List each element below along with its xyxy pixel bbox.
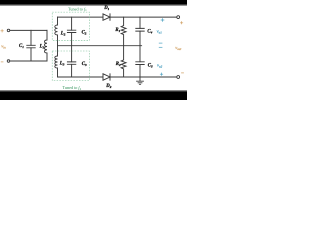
capacitor C4 branch wire <box>139 17 141 46</box>
capacitor C2 plates <box>67 30 75 32</box>
bottom letterbox bar <box>0 91 187 100</box>
svg-text:C4: C4 <box>147 30 152 35</box>
output terminal top <box>177 16 180 19</box>
svg-text:C1: C1 <box>19 44 24 49</box>
capacitor C2 branch wire <box>71 17 73 46</box>
wire top rail left <box>58 16 103 18</box>
polarity minus vout <box>181 72 184 74</box>
tuned box 1 <box>52 12 89 40</box>
polarity plus vo1 <box>161 18 165 22</box>
inductor L2 <box>55 17 58 35</box>
capacitor C5 branch wire <box>139 46 141 77</box>
inductor L1 <box>45 30 47 61</box>
wire center rail <box>58 45 142 47</box>
input terminal top <box>7 29 10 32</box>
polarity plus vin <box>1 29 4 32</box>
wire bottom rail left <box>58 76 103 78</box>
ground <box>137 77 144 84</box>
svg-text:C5: C5 <box>148 63 153 68</box>
svg-text:D2: D2 <box>105 84 111 89</box>
resistor R2 <box>121 46 126 77</box>
wire bottom rail right <box>110 76 177 78</box>
input terminal bottom <box>7 60 10 63</box>
polarity minus vo2 <box>159 46 163 48</box>
svg-text:L2: L2 <box>60 32 66 37</box>
wire center tap vertical <box>57 35 59 56</box>
resistor R1 <box>121 17 126 46</box>
svg-text:C2: C2 <box>82 31 87 36</box>
polarity minus vin <box>1 61 4 63</box>
svg-text:R2: R2 <box>116 62 121 67</box>
inductor L3 <box>55 56 58 77</box>
polarity plus vo2 <box>160 73 163 76</box>
polarity minus vo1 <box>159 42 163 44</box>
output terminal bottom <box>177 76 180 79</box>
capacitor C1 plates <box>27 45 35 48</box>
capacitor C5 plates <box>136 62 144 65</box>
svg-text:C3: C3 <box>82 62 87 67</box>
capacitor C1 branch wire <box>30 30 32 61</box>
wire input bottom <box>10 60 47 62</box>
polarity plus vout <box>180 21 183 24</box>
capacitor C4 plates <box>136 28 144 31</box>
capacitor C3 plates <box>67 62 75 64</box>
svg-text:D1: D1 <box>103 6 109 11</box>
wire top rail right <box>110 16 177 18</box>
svg-text:L1: L1 <box>39 45 45 50</box>
capacitor C3 branch wire <box>71 46 73 77</box>
wire input top <box>10 29 47 31</box>
svg-text:R1: R1 <box>115 28 120 33</box>
diode D2 <box>103 74 110 80</box>
tuned box 2 <box>52 51 89 81</box>
svg-text:L3: L3 <box>59 62 65 67</box>
top letterbox bar <box>0 0 187 5</box>
diode D1 <box>103 14 110 20</box>
